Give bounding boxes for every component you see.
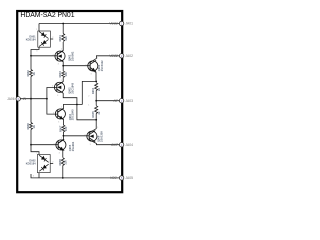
- wire Q906 collector diag: [89, 120, 96, 133]
- svg-text:R901: R901: [58, 35, 62, 42]
- wire R902 to input node: [30, 77, 32, 99]
- svg-text:VCC1: VCC1: [109, 22, 118, 26]
- wire D902 pin2 stub: [50, 163, 53, 165]
- svg-text:R907: R907: [58, 125, 62, 132]
- pad JA06 IN: [7, 97, 27, 101]
- wire Q905 emitter to R908: [58, 147, 63, 158]
- wire D901 pin1 to bus: [38, 24, 40, 32]
- wire R901 to Q901 collector: [57, 42, 63, 54]
- wire Q901 emitter to node A: [57, 58, 63, 71]
- transistor Q906: [87, 131, 97, 142]
- resistor R906: [30, 123, 33, 130]
- wire R901 top to bus: [62, 24, 64, 34]
- wire D901 pin3 down to node: [31, 47, 39, 69]
- wire node N to pad: [96, 100, 122, 102]
- svg-text:KDS184: KDS184: [26, 162, 36, 166]
- resistor R907: [62, 125, 65, 132]
- svg-text:2SC1845: 2SC1845: [71, 109, 75, 120]
- junction top bus: [62, 23, 64, 25]
- wire bottom bus: [31, 174, 122, 178]
- transistor Q904: [55, 108, 65, 119]
- junction bottom bus: [62, 177, 64, 179]
- wire VCC top bus: [39, 23, 122, 25]
- junction Q903 emitter node: [95, 81, 97, 83]
- diode D902a: [38, 154, 50, 165]
- svg-text:R903: R903: [58, 71, 62, 78]
- border frame: [17, 11, 122, 192]
- wire R907 to node B: [58, 132, 63, 143]
- resistor R903: [62, 71, 65, 78]
- pad JA03 NF: [114, 99, 134, 103]
- junction Q901 base: [30, 55, 32, 57]
- junction mid node bottom: [95, 119, 97, 121]
- svg-text:R906: R906: [26, 123, 30, 130]
- svg-text:2SA992: 2SA992: [71, 141, 75, 151]
- transistor Q902: [54, 82, 64, 93]
- pad JA01 VCC1: [109, 21, 133, 25]
- wire D901 pin2 stub: [50, 38, 53, 40]
- wire Q905 base: [31, 144, 58, 146]
- svg-text:OUT: OUT: [111, 143, 119, 147]
- svg-text:JA06: JA06: [7, 97, 15, 101]
- junction node B: [63, 135, 65, 137]
- wire mid node to Q904 collector: [58, 105, 83, 113]
- diode D901a: [38, 30, 50, 41]
- svg-text:JA01: JA01: [125, 22, 133, 26]
- svg-text:1K: 1K: [32, 72, 36, 75]
- wire R903 to Q902 collector: [57, 78, 64, 86]
- wire D902 pin3 to bottom bus: [38, 173, 40, 178]
- svg-text:2SC1845: 2SC1845: [71, 82, 75, 93]
- wire R905 to mid node: [95, 114, 97, 120]
- svg-text:R905: R905: [91, 111, 95, 118]
- resistor R901: [62, 34, 65, 42]
- svg-text:100: 100: [64, 72, 68, 77]
- diode D902b: [38, 162, 50, 173]
- svg-text:2SA992: 2SA992: [71, 51, 75, 61]
- diode box D902: [37, 154, 50, 173]
- wire Q903 collector to VCC2 pad: [90, 56, 122, 63]
- junction jog crossing: [76, 104, 78, 106]
- wire R906 segment: [31, 130, 39, 155]
- junction node input-left: [30, 98, 32, 100]
- svg-text:VCC-: VCC-: [110, 176, 118, 180]
- svg-text:220: 220: [64, 160, 68, 165]
- junction node input: [46, 98, 48, 100]
- svg-text:HDAM-SA2 PN01: HDAM-SA2 PN01: [20, 12, 74, 19]
- svg-text:JA04: JA04: [125, 143, 133, 147]
- svg-text:R902: R902: [26, 70, 30, 77]
- svg-text:JA02: JA02: [125, 54, 133, 58]
- svg-text:2SA1359: 2SA1359: [99, 131, 103, 142]
- transistor Q903: [88, 60, 98, 71]
- wire Q904 emitter to R907: [58, 116, 64, 125]
- wire Q902 emitter jog to mid node: [57, 89, 97, 120]
- svg-text:R904: R904: [91, 87, 95, 94]
- resistor R902: [30, 70, 33, 77]
- resistor R905: [95, 106, 98, 114]
- pad JA05 VEE: [110, 176, 133, 180]
- wire R904 to node N to R905: [95, 91, 97, 106]
- wire node to R904: [95, 81, 97, 82]
- wire input line: [19, 98, 47, 100]
- junction Q905 base: [30, 144, 32, 146]
- wire R908 to bottom bus: [62, 166, 64, 178]
- wire Q903 emitter to bend: [82, 69, 96, 104]
- svg-text:KDS184: KDS184: [26, 37, 36, 41]
- wire input to Q902 base: [47, 88, 57, 99]
- resistor R908: [61, 158, 64, 166]
- svg-text:2SC3422: 2SC3422: [100, 60, 104, 71]
- junction node N: [95, 100, 97, 102]
- svg-text:1K: 1K: [32, 125, 36, 128]
- svg-text:JA05: JA05: [125, 176, 133, 180]
- transistor Q901: [55, 51, 65, 62]
- svg-text:R908: R908: [58, 159, 62, 166]
- svg-text:VCC2: VCC2: [109, 54, 118, 58]
- svg-text:100: 100: [64, 126, 68, 131]
- diode box D901: [38, 30, 51, 49]
- wire Q901 base: [31, 55, 57, 57]
- svg-text:JA03: JA03: [125, 99, 133, 103]
- wire Q906 emitter to OUT pad: [89, 140, 122, 145]
- resistor R904: [95, 83, 98, 91]
- wire node A to Q903 base: [63, 65, 90, 67]
- transistor Q905: [56, 139, 66, 150]
- wire input to Q904 base: [47, 99, 58, 114]
- pad JA02 VCC2: [109, 54, 133, 58]
- pad JA04 OUT: [111, 143, 133, 147]
- wire R906 top to input node: [30, 99, 32, 123]
- wire node B to Q906 base: [63, 135, 89, 137]
- diode D901b: [38, 38, 50, 49]
- svg-text:220: 220: [64, 36, 68, 41]
- junction node A: [62, 65, 64, 67]
